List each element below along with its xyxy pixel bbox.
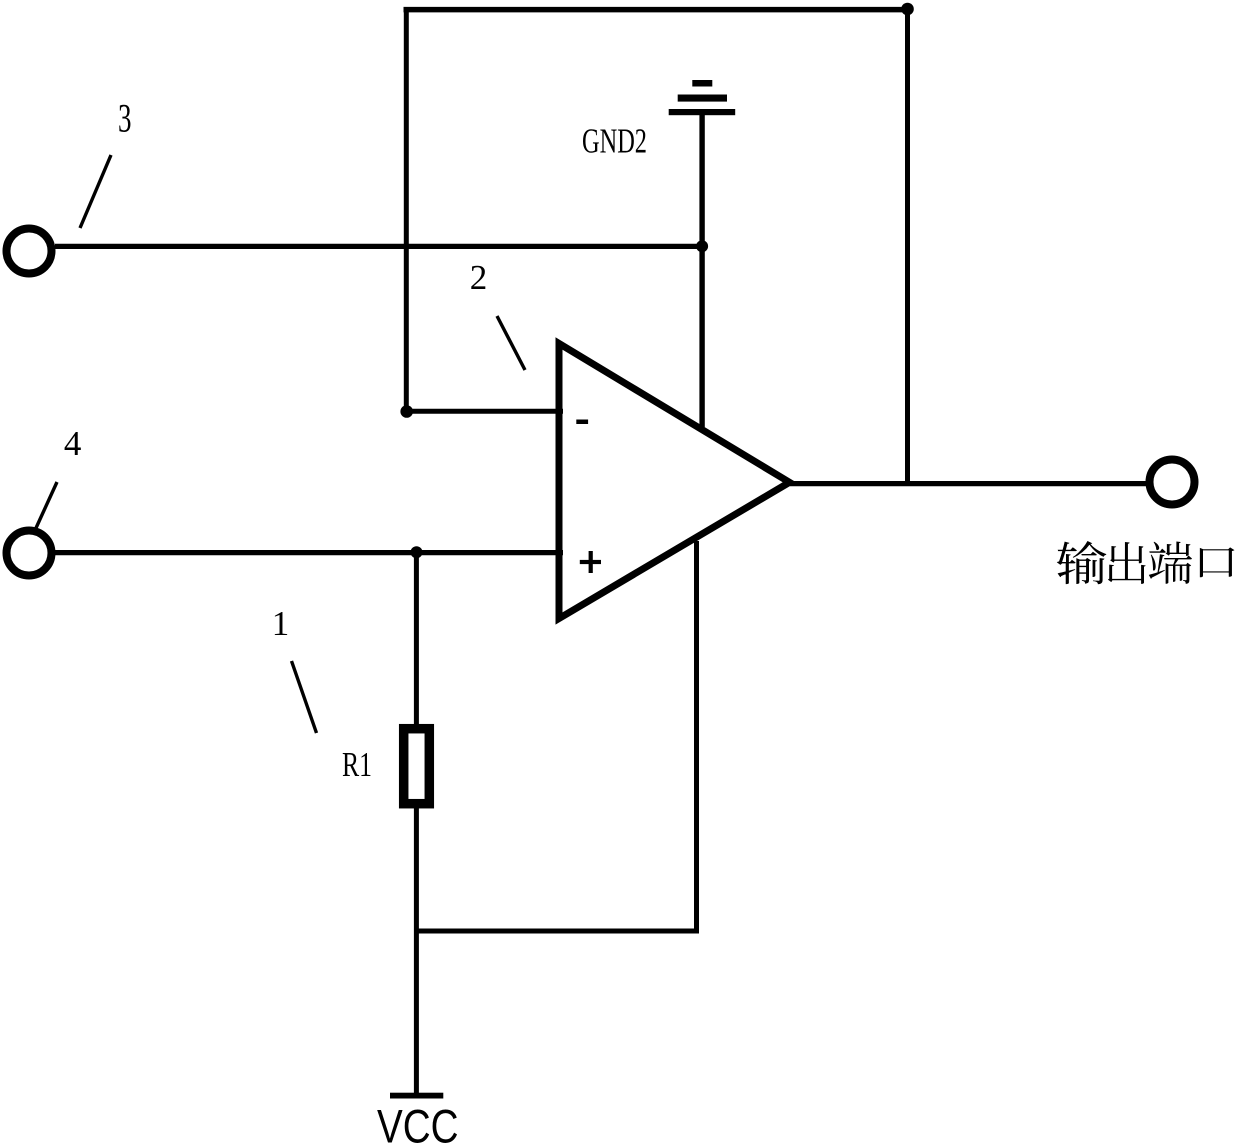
junction dot at feedback corner to inverting input bbox=[400, 405, 413, 418]
svg-text:1: 1 bbox=[272, 604, 290, 643]
pointer line for label 4 bbox=[36, 482, 57, 528]
pointer line for label 1 bbox=[292, 661, 317, 733]
wire: left vertical feedback branch bbox=[404, 9, 409, 411]
pointer line for label 2 bbox=[497, 316, 525, 370]
junction dot where R1 branch meets + input wire bbox=[411, 546, 423, 558]
wire: R1 top lead from + input wire bbox=[414, 552, 419, 726]
junction dot where terminal-3 wire meets GND2 stem bbox=[696, 240, 708, 252]
label output port text (CJK) glyph kou bbox=[1200, 547, 1235, 577]
svg-text:GND2: GND2 bbox=[582, 122, 647, 161]
VCC power bar bbox=[390, 1093, 443, 1099]
wire: R1 bottom lead down to VCC bbox=[414, 806, 419, 1093]
op-amp minus sign bbox=[576, 420, 588, 425]
wire: vertical stem from op-amp bottom side down to bottom horizontal bbox=[694, 541, 699, 931]
op-amp U triangle bbox=[559, 344, 790, 619]
label output port text (CJK) glyph chu bbox=[1108, 542, 1146, 584]
wire: from terminal 4 to non-inverting (+) input bbox=[55, 550, 563, 555]
wire: op-amp output to output terminal bbox=[790, 481, 1146, 486]
svg-text:3: 3 bbox=[118, 96, 132, 141]
pointer line for label 3 bbox=[80, 155, 111, 228]
junction dot at top-right corner bbox=[901, 3, 914, 16]
terminal 4 circle bbox=[7, 531, 52, 576]
wire: GND2 stem down to op-amp top side bbox=[699, 115, 704, 427]
wire: right vertical from top wire down to output net bbox=[905, 9, 910, 483]
terminal 3 circle bbox=[7, 229, 52, 274]
wire: top feedback horizontal from inverting-branch to output branch bbox=[404, 7, 911, 13]
wire: bottom horizontal from R1 branch to op-amp bottom stem bbox=[416, 929, 699, 934]
svg-text:R1: R1 bbox=[342, 745, 372, 784]
svg-text:4: 4 bbox=[64, 424, 82, 463]
label output port text (CJK) glyph shu bbox=[1057, 541, 1107, 584]
wire: horizontal into inverting (-) input bbox=[406, 409, 563, 414]
resistor R1 body bbox=[404, 729, 430, 804]
svg-text:2: 2 bbox=[470, 258, 488, 297]
wire: from terminal 3 to GND2 stem bbox=[55, 244, 703, 249]
svg-text:VCC: VCC bbox=[377, 1100, 459, 1145]
ground GND2 symbol bars bbox=[669, 80, 736, 115]
output terminal circle bbox=[1150, 460, 1195, 505]
op-amp plus sign bbox=[580, 551, 601, 573]
label output port text (CJK) glyph duan bbox=[1149, 541, 1192, 583]
